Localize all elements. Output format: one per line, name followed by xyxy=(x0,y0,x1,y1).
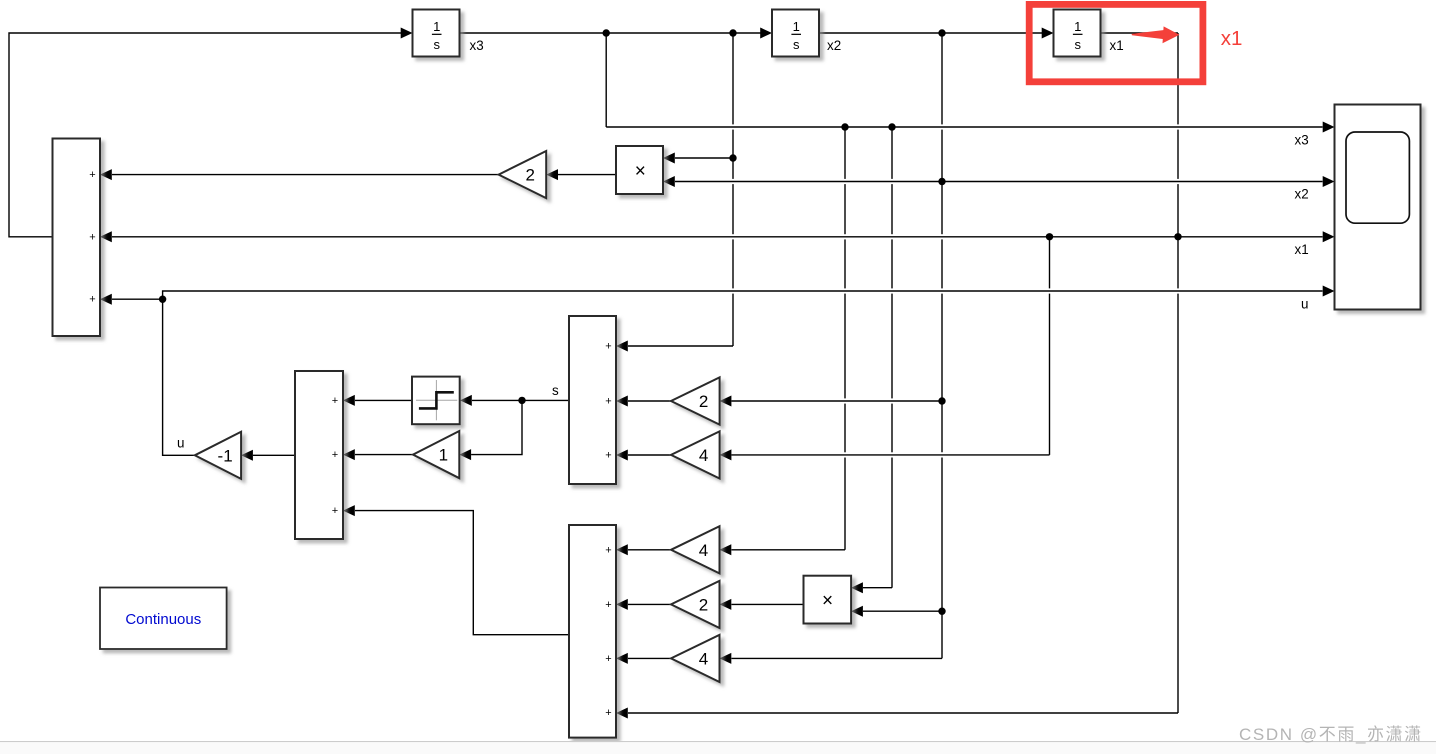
node: x1 to 4-gain junction xyxy=(1046,233,1053,240)
node: x2 drop junction at product P2 feed xyxy=(938,608,945,615)
scope block xyxy=(1335,105,1421,310)
wire: x=1049.5 drop from x1 to gain 4 (middle group) xyxy=(1049,237,1051,289)
gain 4 (bottom first) xyxy=(671,526,720,573)
wire: x1 signal across to scope input 3 and sum S1 input 2 xyxy=(112,236,1178,238)
wire: product P1 output to gain 2 xyxy=(558,174,616,176)
svg-text:+: + xyxy=(605,450,611,462)
svg-text:×: × xyxy=(635,161,646,182)
svg-text:2: 2 xyxy=(699,392,708,411)
sum block S1 (left, 3 inputs) xyxy=(53,139,101,337)
svg-text:x1: x1 xyxy=(1221,27,1243,50)
node: x2 branch junction xyxy=(938,29,945,36)
wire: x3 signal down and across to scope input 1 xyxy=(605,33,607,127)
red annotation arrow xyxy=(1132,30,1168,40)
svg-text:1: 1 xyxy=(793,19,800,34)
gain 2 (upper middle) xyxy=(671,377,720,424)
wire: sum S2 output s to sign block and gain 1 xyxy=(522,399,569,401)
svg-text:2: 2 xyxy=(699,596,708,615)
sign block xyxy=(412,377,460,425)
svg-text:+: + xyxy=(89,169,95,181)
integrator 1/s (x3) xyxy=(413,10,460,57)
svg-text:4: 4 xyxy=(699,541,708,560)
wire: u into sum S1 input 3 xyxy=(112,298,163,300)
gain 2 (bottom) xyxy=(671,581,720,628)
node: x2 junction xyxy=(938,178,945,185)
wire: x=845 drop from x3 to gain 4 (bottom group) xyxy=(844,127,846,179)
sum block S3 (left middle, 3 inputs) xyxy=(295,371,343,539)
svg-text:4: 4 xyxy=(699,446,708,465)
wire: x=733 drop to product P1 input 1 and sum S2 input 1 xyxy=(732,33,734,124)
wire: x2 signal across to scope input 2 and product P1 input 2 xyxy=(675,181,1323,183)
wire: gain 4 (middle) output to sum S2 input 3 xyxy=(628,454,671,456)
svg-text:+: + xyxy=(605,653,611,665)
svg-text:×: × xyxy=(822,590,833,611)
svg-text:s: s xyxy=(793,37,800,52)
node: u junction xyxy=(159,296,166,303)
wire: x=942 drop from x2 to gains and product P2 xyxy=(941,33,943,124)
svg-text:-1: -1 xyxy=(218,446,233,465)
red annotation rectangle xyxy=(1029,4,1203,81)
svg-text:x1: x1 xyxy=(1295,242,1309,257)
svg-text:CSDN @不雨_亦潇潇: CSDN @不雨_亦潇潇 xyxy=(1239,725,1423,744)
svg-text:x1: x1 xyxy=(1110,38,1124,53)
svg-text:+: + xyxy=(605,707,611,719)
wire: gain 4 (bottom first) output to sum S4 input 1 xyxy=(628,549,671,551)
svg-text:x3: x3 xyxy=(470,38,484,53)
svg-text:+: + xyxy=(332,449,338,461)
product block P1 (upper) xyxy=(616,146,663,194)
gain 4 (middle) xyxy=(671,431,720,478)
wire: gain 4 (bottom second) output to sum S4 input 3 xyxy=(628,657,671,659)
svg-text:+: + xyxy=(605,599,611,611)
wire: x=892 drop from x3 to product P2 input 1 xyxy=(891,127,893,179)
gain 2 (top) xyxy=(499,151,547,198)
integrator 1/s (x2) xyxy=(772,10,819,57)
svg-text:Continuous: Continuous xyxy=(125,611,201,628)
gain 4 (bottom second) xyxy=(671,635,720,682)
svg-text:1: 1 xyxy=(433,19,440,34)
svg-text:4: 4 xyxy=(699,650,708,669)
svg-text:x2: x2 xyxy=(827,38,841,53)
node: x3 branch junction xyxy=(603,29,610,36)
wire: u signal across to scope input 4 xyxy=(163,291,1323,299)
wire: integrator x2 output to integrator x1 xyxy=(819,32,1042,34)
svg-text:+: + xyxy=(605,341,611,353)
node: x3 branch junction 2 xyxy=(729,29,736,36)
wire: gain 2 (bottom) output to sum S4 input 2 xyxy=(628,603,671,605)
node: junction at product P1 input 1 xyxy=(729,154,736,161)
wire: sum S3 output to gain -1 xyxy=(253,454,295,456)
svg-text:x3: x3 xyxy=(1295,132,1309,147)
wire: sum S4 output up to sum S3 input 3 xyxy=(355,511,569,635)
svg-text:1: 1 xyxy=(1074,19,1081,34)
wire: gain -1 output up to u node xyxy=(163,299,195,455)
svg-text:+: + xyxy=(605,396,611,408)
svg-text:+: + xyxy=(332,395,338,407)
Continuous annotation block xyxy=(100,588,227,650)
svg-text:s: s xyxy=(552,383,559,398)
gain 1 xyxy=(413,431,459,478)
wire: gain 2 output to sum S1 input 1 xyxy=(112,174,499,176)
product block P2 (lower) xyxy=(804,576,852,624)
node: x2 drop junction at gain 2 feed xyxy=(938,397,945,404)
svg-text:s: s xyxy=(433,37,440,52)
wire: product P2 output to gain 2 (bottom) xyxy=(732,603,804,605)
svg-text:u: u xyxy=(177,436,184,451)
svg-text:1: 1 xyxy=(439,446,448,465)
wire: sign block output to sum S3 input 1 xyxy=(355,399,412,401)
svg-text:s: s xyxy=(1074,37,1081,52)
node: x1 junction on scope feed xyxy=(1174,233,1181,240)
sum block S2 (upper middle, 3 inputs) xyxy=(569,316,616,484)
wire: integrator x3 output to integrator x2 xyxy=(460,32,761,34)
node: x3 to 4-gain junction xyxy=(841,123,848,130)
svg-text:+: + xyxy=(605,544,611,556)
node: x3 to product junction xyxy=(888,123,895,130)
wire: gain 2 (top middle) output to sum S2 input 2 xyxy=(628,400,671,402)
wire: sum S1 output up-and-over into integrator x3 xyxy=(9,33,401,237)
svg-text:u: u xyxy=(1301,296,1308,311)
gain -1 xyxy=(195,432,241,479)
wire: integrator x1 output right then down to bottom sum input 4 xyxy=(1101,32,1179,34)
bottom separator line xyxy=(0,741,1436,742)
node: s junction xyxy=(518,397,525,404)
svg-text:+: + xyxy=(89,294,95,306)
svg-text:+: + xyxy=(89,231,95,243)
svg-text:2: 2 xyxy=(525,166,534,185)
svg-text:x2: x2 xyxy=(1295,186,1309,201)
sum block S4 (bottom, 4 inputs) xyxy=(569,525,616,738)
integrator 1/s (x1) xyxy=(1054,10,1101,57)
svg-text:+: + xyxy=(332,505,338,517)
wire: gain 1 output to sum S3 input 2 xyxy=(355,454,413,456)
